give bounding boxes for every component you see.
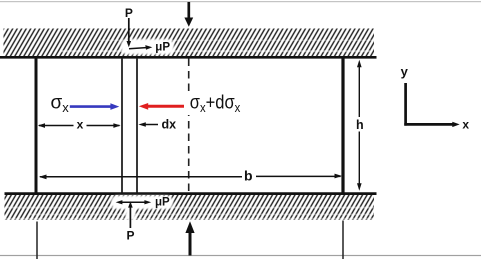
svg-text:σx+dσx: σx+dσx — [190, 93, 241, 115]
svg-text:P: P — [125, 6, 133, 20]
svg-text:μP: μP — [155, 196, 170, 208]
svg-text:h: h — [356, 118, 364, 132]
svg-text:x: x — [77, 118, 84, 132]
svg-text:μP: μP — [155, 42, 170, 54]
svg-text:b: b — [244, 167, 253, 183]
svg-text:P: P — [127, 229, 135, 243]
svg-text:dx: dx — [162, 118, 177, 132]
svg-text:y: y — [401, 64, 409, 79]
svg-text:x: x — [462, 118, 469, 132]
